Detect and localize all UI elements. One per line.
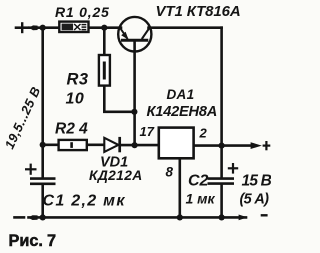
resistor R1 body (59, 22, 88, 32)
capacitor C2 plates (208, 179, 235, 184)
output plus sign top-right (263, 141, 271, 150)
svg-text:R1 0,25: R1 0,25 (55, 4, 110, 20)
IC DA1 box (159, 128, 194, 159)
wire right rail upper (corner down to output node) (220, 28, 223, 146)
wire VD1 cathode to DA1 pin 17 (121, 144, 159, 147)
input arrow bottom-left (28, 215, 38, 220)
wire right rail middle (output node to C2 top plate) (220, 146, 223, 178)
svg-text:2: 2 (199, 126, 208, 141)
node output right rail (219, 143, 225, 149)
wire R2 to VD1 anode (87, 144, 105, 147)
node C1 bottom rail (40, 214, 46, 220)
svg-text:VT1 КТ816А: VT1 КТ816А (156, 3, 241, 20)
svg-text:DA1: DA1 (167, 87, 195, 102)
input plus terminal cross (21, 22, 23, 33)
node pin8 bottom rail (177, 214, 183, 220)
svg-text:C2: C2 (188, 173, 209, 190)
node C2 bottom rail (219, 214, 225, 220)
diode VD1 triangle (104, 138, 118, 152)
transistor VT1 circle (118, 17, 151, 52)
svg-text:15 В: 15 В (242, 173, 272, 190)
node R3 base junction (131, 109, 137, 115)
wire top rail middle segment (R1 to transistor) (89, 26, 122, 29)
svg-text:7: 7 (47, 232, 56, 250)
svg-text:Рис.: Рис. (9, 232, 43, 250)
node diode base junction (132, 142, 138, 148)
wire left rail upper (input node down to R2 node) (41, 28, 44, 145)
capacitor C2 plus polarity mark (228, 163, 238, 174)
input arrow top-left (29, 25, 38, 30)
svg-text:10: 10 (66, 91, 85, 108)
svg-text:КД212А: КД212А (89, 168, 143, 183)
output minus sign bottom-right (261, 214, 268, 216)
svg-text:R3: R3 (67, 71, 89, 89)
svg-text:19,5...25 В: 19,5...25 В (2, 84, 44, 151)
transistor VT1 emitter diagonal with arrow (left) (121, 29, 129, 40)
svg-text:1 мк: 1 мк (186, 191, 216, 207)
wire DA1 pin 8 lead down to bottom rail (179, 158, 182, 217)
svg-text:R2 4: R2 4 (55, 121, 88, 138)
svg-text:C1 2,2 мк: C1 2,2 мк (43, 193, 126, 210)
transistor VT1 base bar (121, 39, 148, 42)
resistor R2 body (59, 140, 87, 150)
wire top rail left segment (input + to R1) (16, 26, 28, 29)
node R3 top rail (101, 25, 107, 31)
diode VD1 cathode bar (118, 137, 121, 152)
capacitor C1 plus polarity mark (25, 164, 37, 175)
wire R3 top lead from top rail (103, 28, 106, 55)
wire bottom rail (15, 216, 25, 219)
wire DA1 pin 2 to output node and arrow (194, 144, 252, 147)
resistor R1 power marks (62, 24, 87, 31)
output arrow top-right (251, 142, 262, 149)
wire top rail right segment (transistor to corner) (149, 26, 222, 29)
wire transistor base lead down to diode node (133, 41, 136, 145)
node R2 left rail (40, 142, 46, 148)
capacitor C1 plates (30, 179, 56, 184)
wire R3 bottom lead and corner to base line (104, 86, 134, 112)
wire R2 node to R2 (43, 144, 59, 147)
node input top (40, 25, 46, 31)
resistor R3 body (99, 55, 110, 86)
transistor VT1 collector diagonal (right) (142, 29, 149, 40)
resistor R2 power mark (70, 142, 73, 148)
wire left rail middle (R2 node to C1 top plate) (41, 145, 44, 178)
svg-text:К142ЕН8А: К142ЕН8А (147, 104, 218, 120)
wire right rail lower (C2 bottom plate to bottom rail) (220, 185, 223, 218)
resistor R3 power mark (103, 62, 106, 80)
output arrow bottom-right (239, 215, 248, 221)
svg-text:17: 17 (140, 124, 155, 139)
wire left rail lower (C1 bottom plate to bottom rail) (41, 185, 44, 218)
svg-text:(5 А): (5 А) (240, 192, 270, 208)
svg-text:8: 8 (166, 165, 174, 180)
